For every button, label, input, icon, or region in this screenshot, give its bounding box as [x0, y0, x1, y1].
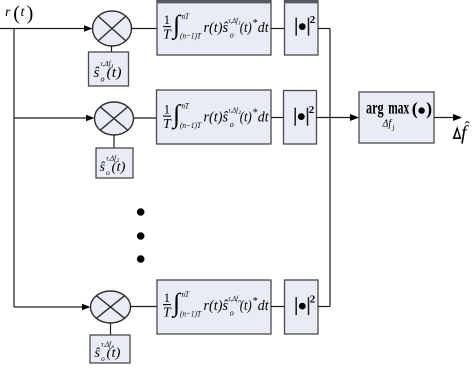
svg-text:(t): (t) — [107, 346, 121, 361]
svg-text:1: 1 — [164, 103, 170, 117]
svg-text:τ,Δf: τ,Δf — [228, 295, 238, 303]
reference generator box 1 — [89, 52, 129, 86]
integrator block U2 — [157, 90, 272, 144]
svg-text:(t): (t) — [240, 110, 252, 126]
wire: magnitude A3 to right bus — [318, 306, 330, 308]
svg-text:ŝ: ŝ — [94, 65, 100, 81]
magnitude-squared block A3 — [285, 280, 319, 334]
svg-text:nT: nT — [182, 289, 191, 299]
svg-text:(: ( — [412, 99, 418, 120]
svg-text:nT: nT — [182, 11, 191, 21]
svg-text:(t): (t) — [112, 160, 126, 175]
svg-text:r(t)ŝ: r(t)ŝ — [204, 298, 229, 314]
svg-text:o: o — [106, 168, 110, 177]
svg-text:(t): (t) — [240, 20, 252, 36]
svg-text:o: o — [230, 308, 234, 317]
svg-text:2: 2 — [310, 14, 316, 26]
svg-text:o: o — [230, 120, 234, 129]
mixer M2 — [95, 102, 134, 135]
svg-text:o: o — [101, 354, 105, 363]
mixer M3 — [91, 291, 131, 323]
output label Δf-hat — [453, 120, 470, 145]
wire: right vertical bus — [329, 29, 331, 307]
svg-text:T: T — [163, 306, 172, 321]
svg-text:(t): (t) — [107, 65, 122, 81]
wire: magnitude A2 to argmax block — [317, 117, 352, 119]
svg-text:T: T — [163, 117, 172, 132]
svg-text:1: 1 — [164, 13, 170, 27]
svg-text:r: r — [5, 5, 11, 20]
svg-text:o: o — [101, 75, 105, 84]
svg-text:ŝ: ŝ — [95, 346, 101, 361]
svg-text:τ,Δf: τ,Δf — [228, 17, 238, 25]
svg-text:j: j — [392, 124, 395, 132]
svg-text:max: max — [388, 98, 409, 118]
input label r(t) — [5, 3, 33, 25]
wire: reference into mixer M1 — [111, 46, 113, 52]
argmax block — [359, 92, 434, 143]
svg-text:ˆ: ˆ — [465, 120, 470, 136]
svg-text:τ,Δf: τ,Δf — [228, 106, 238, 114]
svg-text:r(t)ŝ: r(t)ŝ — [204, 110, 229, 126]
wire: input horizontal to mixer M1 — [0, 28, 85, 30]
vertical dots — [137, 208, 145, 216]
wire: magnitude A1 to right bus — [318, 28, 330, 30]
svg-text:nT: nT — [182, 101, 191, 111]
svg-text:o: o — [230, 30, 234, 39]
svg-text:(n−1)T: (n−1)T — [180, 309, 202, 319]
svg-text:): ) — [27, 3, 34, 25]
svg-text:2: 2 — [310, 293, 316, 305]
svg-text:dt: dt — [258, 20, 270, 36]
svg-text:1: 1 — [164, 291, 170, 305]
wire: argmax output — [434, 117, 454, 119]
reference generator box 2 — [96, 148, 133, 178]
wire: integrator U3 to magnitude block A3 — [271, 306, 285, 308]
svg-text:(n−1)T: (n−1)T — [180, 120, 202, 130]
svg-text:arg: arg — [366, 98, 384, 118]
svg-text:(t): (t) — [240, 298, 252, 314]
svg-text:T: T — [163, 28, 172, 43]
svg-text:): ) — [426, 99, 432, 120]
wire: reference into mixer M2 — [113, 135, 115, 148]
svg-text:r(t)ŝ: r(t)ŝ — [204, 20, 229, 36]
svg-text:(n−1)T: (n−1)T — [180, 31, 202, 41]
svg-text:Δf: Δf — [382, 119, 393, 130]
svg-text:dt: dt — [258, 110, 270, 126]
magnitude-squared block A1 — [285, 0, 319, 55]
wire: reference into mixer M3 — [110, 323, 112, 335]
reference generator box 3 — [90, 335, 130, 363]
wire: branch to mixer M2 — [14, 117, 87, 119]
wire: branch to mixer M3 — [14, 306, 83, 308]
wire: mixer M1 to integrator U1 — [132, 28, 158, 30]
wire: integrator U2 to magnitude block A2 — [271, 117, 284, 119]
svg-text:(: ( — [13, 3, 20, 25]
svg-text:ŝ: ŝ — [100, 160, 106, 175]
integrator block U1 — [157, 0, 271, 55]
wire: mixer M2 to integrator U2 — [134, 117, 157, 119]
wire: input vertical bus — [13, 29, 15, 308]
svg-text:2: 2 — [309, 104, 315, 116]
mixer M1 — [93, 11, 132, 46]
integrator block U3 — [157, 280, 271, 334]
wire: integrator U1 to magnitude block A1 — [271, 28, 284, 30]
wire: mixer M3 to integrator U3 — [131, 306, 158, 308]
magnitude-squared block A2 — [284, 91, 317, 145]
svg-text:dt: dt — [258, 298, 270, 314]
